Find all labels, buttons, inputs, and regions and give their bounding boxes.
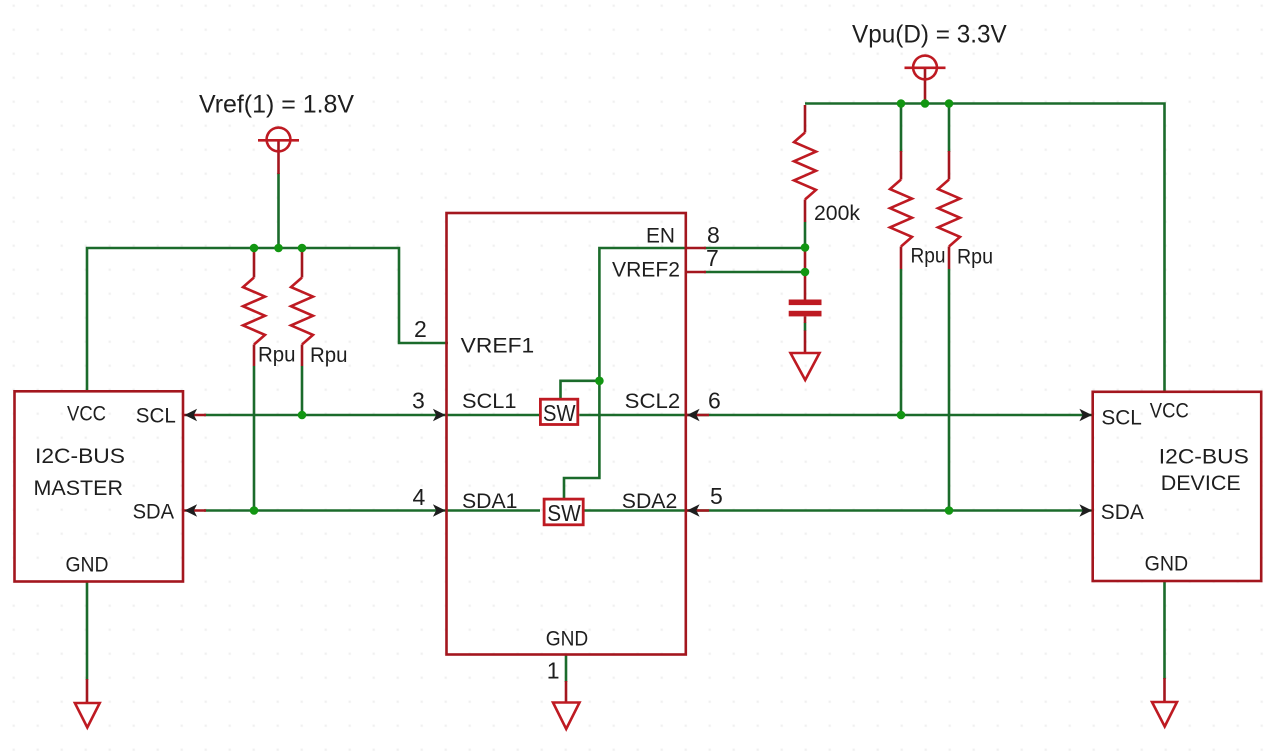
svg-text:3: 3 (412, 388, 425, 414)
svg-text:7: 7 (706, 245, 719, 271)
svg-text:4: 4 (413, 484, 426, 510)
svg-text:GND: GND (1145, 552, 1189, 576)
svg-text:Rpu: Rpu (258, 343, 296, 367)
svg-text:2: 2 (414, 316, 427, 342)
svg-text:GND: GND (66, 553, 109, 577)
svg-text:VCC: VCC (67, 402, 106, 426)
svg-text:SDA: SDA (1101, 500, 1145, 524)
svg-text:SDA: SDA (133, 500, 175, 524)
svg-text:VREF2: VREF2 (612, 258, 680, 282)
svg-text:I2C-BUS: I2C-BUS (35, 444, 125, 468)
svg-text:MASTER: MASTER (34, 476, 124, 500)
svg-text:I2C-BUS: I2C-BUS (1159, 445, 1249, 469)
svg-text:6: 6 (708, 388, 721, 414)
svg-text:SCL: SCL (1101, 406, 1142, 430)
svg-text:SCL: SCL (136, 404, 176, 428)
svg-text:Vpu(D) = 3.3V: Vpu(D) = 3.3V (852, 20, 1007, 48)
svg-text:SDA2: SDA2 (622, 489, 678, 513)
svg-text:EN: EN (646, 223, 675, 247)
svg-text:SCL2: SCL2 (625, 389, 681, 413)
svg-text:5: 5 (710, 483, 723, 509)
svg-text:SCL1: SCL1 (462, 389, 517, 413)
svg-text:SW: SW (547, 500, 581, 526)
svg-text:GND: GND (546, 627, 589, 651)
svg-text:Rpu: Rpu (957, 245, 993, 269)
svg-text:VCC: VCC (1150, 399, 1189, 423)
svg-text:200k: 200k (814, 201, 860, 225)
svg-text:VREF1: VREF1 (461, 334, 535, 358)
svg-text:SW: SW (543, 400, 576, 426)
svg-text:Vref(1) = 1.8V: Vref(1) = 1.8V (199, 91, 354, 119)
svg-text:SDA1: SDA1 (462, 489, 518, 513)
svg-text:Rpu: Rpu (310, 343, 348, 367)
svg-text:Rpu: Rpu (911, 244, 946, 268)
svg-text:1: 1 (547, 658, 560, 684)
svg-text:DEVICE: DEVICE (1161, 471, 1241, 495)
